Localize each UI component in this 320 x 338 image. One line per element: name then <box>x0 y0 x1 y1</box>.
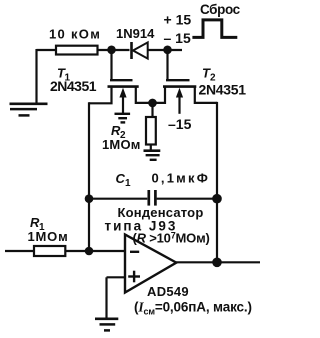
svg-text:2N4351: 2N4351 <box>50 78 97 94</box>
svg-text:1МОм: 1МОм <box>28 229 69 244</box>
svg-text:1: 1 <box>125 178 131 189</box>
svg-text:– 15: – 15 <box>164 30 191 46</box>
svg-text:AD549: AD549 <box>147 284 189 299</box>
svg-text:10 кОм: 10 кОм <box>49 27 101 42</box>
svg-text:Сброс: Сброс <box>200 2 241 17</box>
svg-text:+ 15: + 15 <box>164 12 192 28</box>
svg-text:2N4351: 2N4351 <box>199 82 247 98</box>
svg-text:1N914: 1N914 <box>116 26 155 41</box>
svg-text:C: C <box>116 171 126 186</box>
svg-text:–15: –15 <box>168 116 192 132</box>
svg-text:0,1мкФ: 0,1мкФ <box>152 171 211 186</box>
svg-text:1МОм: 1МОм <box>102 137 141 152</box>
